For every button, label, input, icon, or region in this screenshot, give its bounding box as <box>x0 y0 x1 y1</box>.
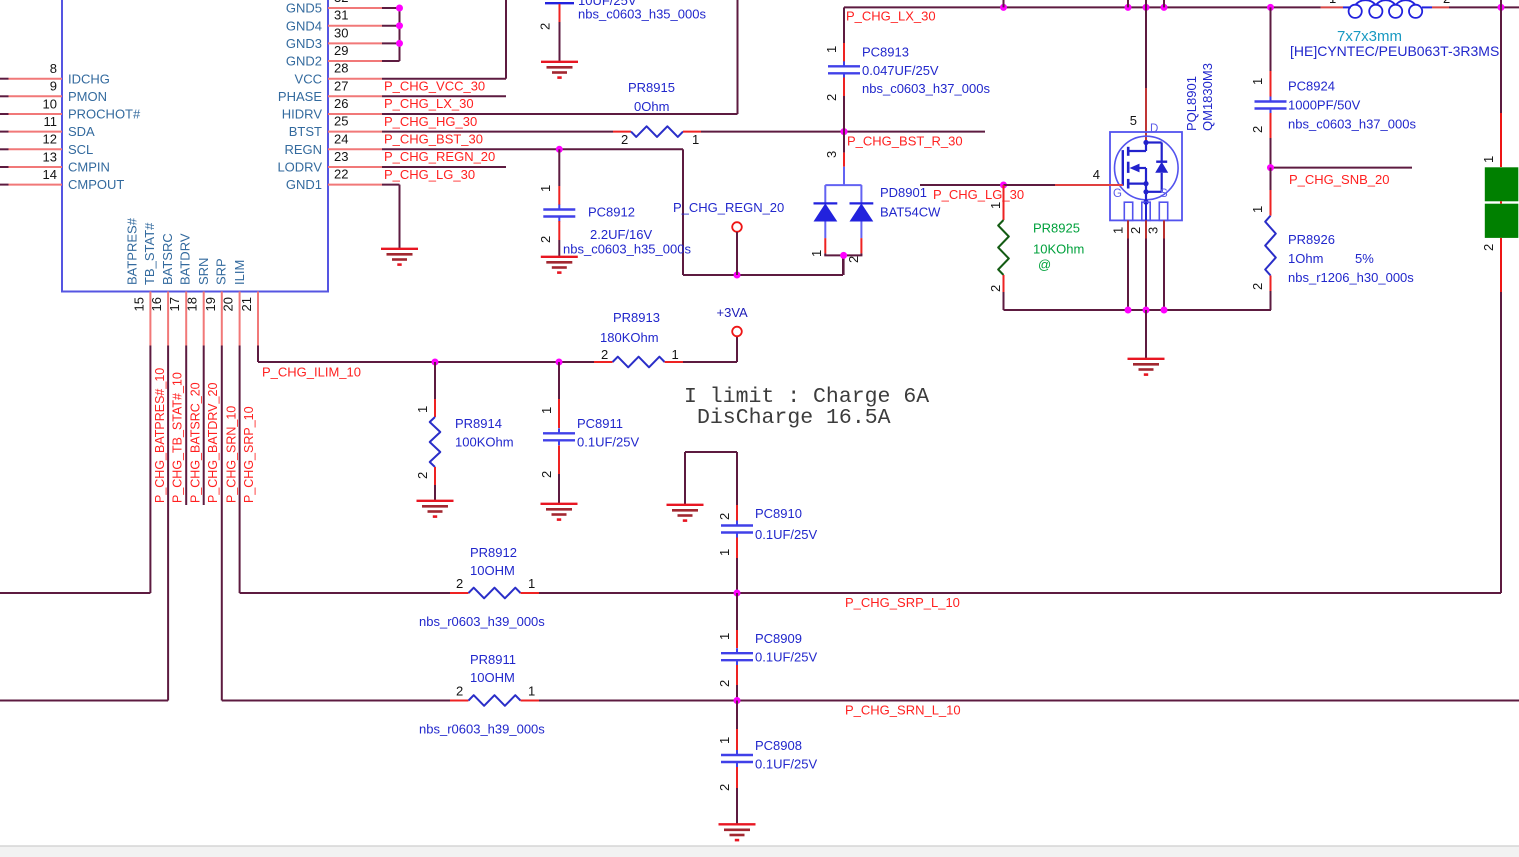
svg-text:2: 2 <box>824 94 839 101</box>
wire net P_CHG_BST_30 (BTST to PR8915) <box>382 131 613 133</box>
wire ground hook for PC8910 <box>684 452 686 504</box>
svg-text:1: 1 <box>717 633 732 640</box>
svg-text:nbs_r1206_h30_000s: nbs_r1206_h30_000s <box>1288 270 1414 285</box>
svg-text:PR8915: PR8915 <box>628 80 675 95</box>
svg-text:PC8924: PC8924 <box>1288 79 1335 94</box>
svg-text:0.047UF/25V: 0.047UF/25V <box>862 63 939 78</box>
svg-text:1: 1 <box>539 407 554 414</box>
IC U8901 charger controller body <box>62 0 328 292</box>
dual diode PD8901 BAT54CW <box>843 132 845 153</box>
wire net P_CHG_HG_30 (HIDRV) <box>382 113 738 115</box>
svg-text:1: 1 <box>672 347 679 362</box>
pin 12 SCL (left) <box>0 148 9 150</box>
ground PC8910 hook <box>667 504 704 506</box>
svg-text:11: 11 <box>44 114 58 129</box>
svg-text:SRP: SRP <box>214 258 229 285</box>
svg-text:26: 26 <box>334 96 348 111</box>
svg-text:2: 2 <box>538 236 553 243</box>
svg-text:PC8911: PC8911 <box>577 416 623 431</box>
wire net P_CHG_SRN_10 (pin19) <box>221 346 223 701</box>
junction top rail MOSFET drain stubs <box>1125 4 1132 11</box>
svg-text:PR8925: PR8925 <box>1033 221 1080 236</box>
svg-text:PC8913: PC8913 <box>862 45 909 60</box>
svg-text:P_CHG_LG_30: P_CHG_LG_30 <box>384 167 475 182</box>
svg-text:1Ohm: 1Ohm <box>1288 251 1323 266</box>
svg-text:P_CHG_SNB_20: P_CHG_SNB_20 <box>1289 172 1389 187</box>
pin 14 CMPOUT (left) <box>0 184 9 186</box>
svg-text:17: 17 <box>167 297 182 311</box>
svg-text:SRN: SRN <box>196 258 211 285</box>
junction gate / PR8925 <box>1000 182 1007 189</box>
svg-text:2: 2 <box>1443 0 1450 6</box>
svg-text:100KOhm: 100KOhm <box>455 435 514 450</box>
svg-text:1: 1 <box>538 185 553 192</box>
svg-text:22: 22 <box>334 167 348 182</box>
svg-text:2: 2 <box>456 684 463 699</box>
junction source rail <box>1125 307 1132 314</box>
wire net P_CHG_BATSRC_20 (pin17) <box>185 346 187 506</box>
wire net GND right of IC (GND5-GND2 tie) <box>382 7 400 9</box>
svg-text:2: 2 <box>717 680 732 687</box>
svg-text:2: 2 <box>1250 283 1265 290</box>
resistor PR8925 10KOhm gate pulldown <box>1003 185 1005 220</box>
pin 19 SRN (bottom) <box>221 292 223 346</box>
svg-text:REGN: REGN <box>284 142 322 157</box>
svg-text:S: S <box>1160 188 1168 200</box>
svg-text:nbs_c0603_h37_000s: nbs_c0603_h37_000s <box>1288 117 1416 132</box>
junction GND5 <box>396 5 403 12</box>
wire to +3VA <box>683 361 737 363</box>
svg-text:2: 2 <box>1128 227 1143 234</box>
svg-text:PC8909: PC8909 <box>755 631 802 646</box>
svg-text:@: @ <box>1038 257 1051 272</box>
svg-text:LODRV: LODRV <box>277 160 322 175</box>
resistor PR8926 1Ohm snubber <box>1270 168 1272 190</box>
ground MOSFET source <box>1128 358 1165 360</box>
svg-text:32: 32 <box>334 0 348 5</box>
svg-text:13: 13 <box>43 149 57 164</box>
pin 26 HIDRV (right) <box>328 113 382 115</box>
pin 11 SDA (left) <box>0 131 9 133</box>
svg-text:HIDRV: HIDRV <box>282 107 323 122</box>
ground PC8908 <box>719 823 756 825</box>
svg-text:PMON: PMON <box>68 89 107 104</box>
svg-text:PR8913: PR8913 <box>613 310 660 325</box>
svg-text:2: 2 <box>415 472 430 479</box>
svg-text:14: 14 <box>43 167 57 182</box>
svg-text:20: 20 <box>221 297 236 311</box>
wire net P_CHG_SNB_20 <box>1271 167 1413 169</box>
ground PC8912 <box>541 256 578 258</box>
svg-text:G: G <box>1113 188 1122 200</box>
svg-text:2: 2 <box>456 576 463 591</box>
wire PD8901 bottom tie <box>824 253 826 255</box>
junction REGN/PC8912 <box>556 146 563 153</box>
svg-text:16: 16 <box>149 297 164 311</box>
svg-text:1: 1 <box>809 250 824 257</box>
svg-text:PR8911: PR8911 <box>470 652 516 667</box>
svg-text:2: 2 <box>1250 126 1265 133</box>
svg-text:GND4: GND4 <box>286 18 322 33</box>
capacitor PC8911 0.1UF/25V <box>558 362 560 399</box>
svg-text:1: 1 <box>1250 206 1265 213</box>
svg-text:PROCHOT#: PROCHOT# <box>68 107 141 122</box>
pin 29 GND2 (right) <box>328 60 382 62</box>
svg-text:P_CHG_LG_30: P_CHG_LG_30 <box>933 187 1024 202</box>
svg-text:2: 2 <box>1481 244 1496 251</box>
svg-text:28: 28 <box>334 61 348 76</box>
svg-text:10: 10 <box>43 96 57 111</box>
svg-text:180KOhm: 180KOhm <box>600 330 659 345</box>
wire net P_CHG_LX_30 top rail <box>844 6 1321 8</box>
svg-text:15: 15 <box>131 297 146 311</box>
svg-text:23: 23 <box>334 149 348 164</box>
svg-text:18: 18 <box>185 297 200 311</box>
svg-text:1: 1 <box>1329 0 1336 6</box>
svg-text:BAT54CW: BAT54CW <box>880 205 941 220</box>
capacitor PC8912 2.2UF/16V <box>558 149 560 186</box>
svg-text:1: 1 <box>717 549 732 556</box>
pin 8 IDCHG (left) <box>0 78 9 80</box>
ground GND1 <box>381 248 418 250</box>
svg-text:0.1UF/25V: 0.1UF/25V <box>755 650 817 665</box>
pin 20 SRP (bottom) <box>239 292 241 346</box>
svg-text:P_CHG_HG_30: P_CHG_HG_30 <box>384 114 477 129</box>
pin 30 GND3 (right) <box>328 42 382 44</box>
svg-text:0Ohm: 0Ohm <box>634 99 669 114</box>
svg-text:4: 4 <box>1093 167 1100 182</box>
svg-text:VCC: VCC <box>295 71 322 86</box>
wire net P_CHG_BATPRES#_10 (pin15) <box>149 346 151 594</box>
pin 13 CMPIN (left) <box>0 166 9 168</box>
pin 24 REGN (right) <box>328 148 382 150</box>
svg-text:P_CHG_BST_R_30: P_CHG_BST_R_30 <box>847 134 963 149</box>
capacitor PC8924 1000PF/50V snubber <box>1270 7 1272 71</box>
svg-text:PC8908: PC8908 <box>755 738 802 753</box>
junction top rail battery connector <box>1498 4 1505 11</box>
svg-text:P_CHG_BATSRC_20: P_CHG_BATSRC_20 <box>189 382 203 503</box>
svg-text:1: 1 <box>1481 156 1496 163</box>
wire net P_CHG_LG_30 at MOSFET gate <box>920 184 1004 186</box>
svg-text:P_CHG_BATPRES#_10: P_CHG_BATPRES#_10 <box>153 368 167 503</box>
pin 9 PMON (left) <box>0 95 9 97</box>
battery connector pins (green) <box>1500 7 1502 113</box>
pin 22 GND1 (right) <box>328 184 382 186</box>
svg-text:CMPIN: CMPIN <box>68 160 110 175</box>
svg-text:GND3: GND3 <box>286 36 322 51</box>
pin 23 LODRV (right) <box>328 166 382 168</box>
wire net P_CHG_LX_30 (PHASE) <box>382 95 506 97</box>
capacitor PC8910 0.1UF/25V <box>736 505 738 521</box>
svg-text:3: 3 <box>1146 227 1161 234</box>
resistor PR8912 10OHM <box>450 592 469 594</box>
svg-text:12: 12 <box>43 132 57 147</box>
resistor PR8913 180KOhm <box>594 361 613 363</box>
svg-text:1: 1 <box>988 202 1003 209</box>
svg-text:PC8910: PC8910 <box>755 506 802 521</box>
svg-text:1: 1 <box>1250 78 1265 85</box>
svg-text:2: 2 <box>539 471 554 478</box>
svg-text:10OHM: 10OHM <box>470 670 515 685</box>
svg-text:27: 27 <box>334 78 348 93</box>
svg-text:19: 19 <box>203 297 218 311</box>
junction GND3 <box>396 40 403 47</box>
svg-text:BATDRV: BATDRV <box>178 233 193 285</box>
wire net P_CHG_SRP_10 (pin20) <box>239 346 241 594</box>
svg-text:TB_STAT#: TB_STAT# <box>142 222 157 285</box>
resistor PR8911 10OHM <box>450 700 469 702</box>
wire net P_CHG_LG_30 (LODRV) <box>382 166 506 168</box>
svg-text:9: 9 <box>50 79 57 94</box>
pin 4 gate wire <box>1055 184 1123 186</box>
svg-text:2: 2 <box>538 23 553 30</box>
svg-text:nbs_c0603_h35_000s: nbs_c0603_h35_000s <box>563 242 691 257</box>
svg-text:1: 1 <box>717 737 732 744</box>
svg-text:P_CHG_SRN_L_10: P_CHG_SRN_L_10 <box>845 703 961 718</box>
svg-text:2: 2 <box>846 256 861 263</box>
svg-text:10OHM: 10OHM <box>470 563 515 578</box>
ground PC8911 <box>541 503 578 505</box>
junction top rail x1003 <box>1000 4 1007 11</box>
junction BST_R / PC8913 <box>841 128 848 135</box>
junction ILIM PC8911 <box>556 359 563 366</box>
svg-text:29: 29 <box>334 43 348 58</box>
svg-text:1: 1 <box>415 406 430 413</box>
svg-text:1: 1 <box>528 684 535 699</box>
wire net P_CHG_BST_R_30 <box>701 131 985 133</box>
svg-text:nbs_r0603_h39_000s: nbs_r0603_h39_000s <box>419 614 545 629</box>
page bottom edge strip <box>0 847 1519 857</box>
junction REGN power stub <box>734 272 741 279</box>
wire net P_CHG_SRN_L_10 <box>222 700 450 702</box>
svg-text:SCL: SCL <box>68 142 93 157</box>
resistor PR8914 100KOhm <box>434 362 436 399</box>
svg-text:P_CHG_ILIM_10: P_CHG_ILIM_10 <box>262 365 361 380</box>
svg-text:24: 24 <box>334 131 348 146</box>
svg-text:P_CHG_SRN_10: P_CHG_SRN_10 <box>224 406 238 503</box>
svg-text:5%: 5% <box>1355 251 1374 266</box>
svg-text:1: 1 <box>824 46 839 53</box>
power stub +REGN (P_CHG_REGN_20 connector) <box>732 222 742 232</box>
svg-text:BATSRC: BATSRC <box>160 233 175 285</box>
wire net P_CHG_VCC_30 <box>382 78 506 80</box>
svg-text:CMPOUT: CMPOUT <box>68 177 124 192</box>
svg-text:[HE]CYNTEC/PEUB063T-3R3MS: [HE]CYNTEC/PEUB063T-3R3MS <box>1290 43 1499 59</box>
svg-text:BATPRES#: BATPRES# <box>124 217 139 285</box>
svg-text:2: 2 <box>988 285 1003 292</box>
svg-text:PR8926: PR8926 <box>1288 232 1335 247</box>
svg-text:2: 2 <box>601 347 608 362</box>
svg-text:0.1UF/25V: 0.1UF/25V <box>755 757 817 772</box>
svg-text:nbs_r0603_h39_000s: nbs_r0603_h39_000s <box>419 722 545 737</box>
MOSFET source pins to rail <box>1127 220 1129 238</box>
svg-text:0.1UF/25V: 0.1UF/25V <box>577 435 639 450</box>
ground top-middle capacitor <box>541 61 578 63</box>
svg-text:25: 25 <box>334 114 348 129</box>
wire source rail <box>1004 309 1272 311</box>
svg-text:ILIM: ILIM <box>232 260 247 285</box>
svg-text:P_CHG_LX_30: P_CHG_LX_30 <box>384 96 474 111</box>
svg-text:1: 1 <box>1111 227 1126 234</box>
svg-text:GND5: GND5 <box>286 1 322 16</box>
svg-text:5: 5 <box>1130 113 1137 128</box>
capacitor top-middle (1UF/25V, partially cut off) <box>545 2 574 4</box>
wire source rail to ground <box>1145 310 1147 358</box>
svg-text:2: 2 <box>717 513 732 520</box>
svg-text:30: 30 <box>334 25 348 40</box>
wire gate from junction <box>1004 184 1056 186</box>
svg-text:P_CHG_REGN_20: P_CHG_REGN_20 <box>384 149 495 164</box>
wire net P_CHG_SRP_L_10 <box>240 592 450 594</box>
svg-text:P_CHG_LX_30: P_CHG_LX_30 <box>846 9 936 24</box>
junction GND4 <box>396 22 403 29</box>
svg-text:D: D <box>1150 123 1158 135</box>
transistor PQL8901 QM1830M3 N-MOSFET <box>1145 0 1147 88</box>
wire net P_CHG_ILIM_10 (pin21) <box>257 346 259 363</box>
svg-text:1000PF/50V: 1000PF/50V <box>1288 98 1361 113</box>
junction SNB <box>1267 164 1274 171</box>
capacitor PC8909 0.1UF/25V <box>736 593 738 630</box>
svg-text:SDA: SDA <box>68 124 95 139</box>
pin 27 PHASE (right) <box>328 95 382 97</box>
pin 21 ILIM (bottom) <box>257 292 259 346</box>
junction top rail PC8924 <box>1267 4 1274 11</box>
svg-text:nbs_c0603_h35_000s: nbs_c0603_h35_000s <box>578 7 706 22</box>
svg-text:PR8914: PR8914 <box>455 416 502 431</box>
svg-text:2: 2 <box>717 784 732 791</box>
pin 17 BATSRC (bottom) <box>185 292 187 346</box>
svg-text:IDCHG: IDCHG <box>68 71 110 86</box>
pin 28 VCC (right) <box>328 78 382 80</box>
svg-text:P_CHG_TB_STAT#_10: P_CHG_TB_STAT#_10 <box>171 372 185 503</box>
ground PR8914 <box>417 500 454 502</box>
svg-text:PHASE: PHASE <box>278 89 322 104</box>
svg-text:8: 8 <box>50 61 57 76</box>
svg-text:P_CHG_REGN_20: P_CHG_REGN_20 <box>673 200 784 215</box>
svg-text:BTST: BTST <box>289 124 322 139</box>
svg-text:P_CHG_SRP_10: P_CHG_SRP_10 <box>242 406 256 503</box>
svg-text:PD8901: PD8901 <box>880 185 927 200</box>
pin 31 GND4 (right) <box>328 25 382 27</box>
svg-text:1: 1 <box>692 132 699 147</box>
pin 16 TB_STAT# (bottom) <box>167 292 169 346</box>
svg-text:10KOhm: 10KOhm <box>1033 242 1084 257</box>
junction SRP_L <box>734 590 741 597</box>
svg-text:P_CHG_SRP_L_10: P_CHG_SRP_L_10 <box>845 595 960 610</box>
inductor PL (7x7x3mm) top right <box>1321 6 1343 8</box>
svg-text:1: 1 <box>528 576 535 591</box>
svg-text:nbs_c0603_h37_000s: nbs_c0603_h37_000s <box>862 81 990 96</box>
svg-text:+3VA: +3VA <box>717 305 749 320</box>
svg-text:2.2UF/16V: 2.2UF/16V <box>590 227 652 242</box>
junction ILIM PR8914 <box>432 359 439 366</box>
pin 15 BATPRES# (bottom) <box>149 292 151 346</box>
svg-text:PC8912: PC8912 <box>588 205 635 220</box>
svg-text:PQL8901: PQL8901 <box>1184 76 1199 131</box>
svg-text:P_CHG_BATDRV_20: P_CHG_BATDRV_20 <box>206 383 220 503</box>
pin 18 BATDRV (bottom) <box>203 292 205 346</box>
resistor PR8915 0Ohm <box>613 131 631 133</box>
pin 32 GND5 (right) <box>328 7 382 9</box>
power +3VA <box>732 327 742 337</box>
svg-text:3: 3 <box>824 151 839 158</box>
svg-text:DisCharge 16.5A: DisCharge 16.5A <box>697 406 891 430</box>
svg-text:0.1UF/25V: 0.1UF/25V <box>755 527 817 542</box>
junction PD8901 anode tie <box>840 252 847 259</box>
pin 25 BTST (right) <box>328 131 382 133</box>
svg-text:GND2: GND2 <box>286 54 322 69</box>
svg-text:31: 31 <box>334 8 348 23</box>
capacitor PC8913 0.047UF/25V <box>843 43 845 62</box>
wire net P_CHG_BATDRV_20 (pin18) <box>203 346 205 506</box>
svg-text:PR8912: PR8912 <box>470 545 517 560</box>
wire net P_CHG_TB_STAT#_10 (pin16) <box>167 346 169 701</box>
svg-text:GND1: GND1 <box>286 177 322 192</box>
svg-text:21: 21 <box>239 297 254 311</box>
wire GND1 to ground <box>382 184 400 186</box>
capacitor PC8908 0.1UF/25V <box>736 701 738 730</box>
svg-text:2: 2 <box>621 132 628 147</box>
svg-text:P_CHG_BST_30: P_CHG_BST_30 <box>384 131 483 146</box>
wire net P_CHG_REGN_20 (REGN) <box>382 148 683 150</box>
svg-text:P_CHG_VCC_30: P_CHG_VCC_30 <box>384 79 485 94</box>
junction SRN_L <box>734 697 741 704</box>
svg-text:QM1830M3: QM1830M3 <box>1200 63 1215 131</box>
pin 10 PROCHOT# (left) <box>0 113 9 115</box>
